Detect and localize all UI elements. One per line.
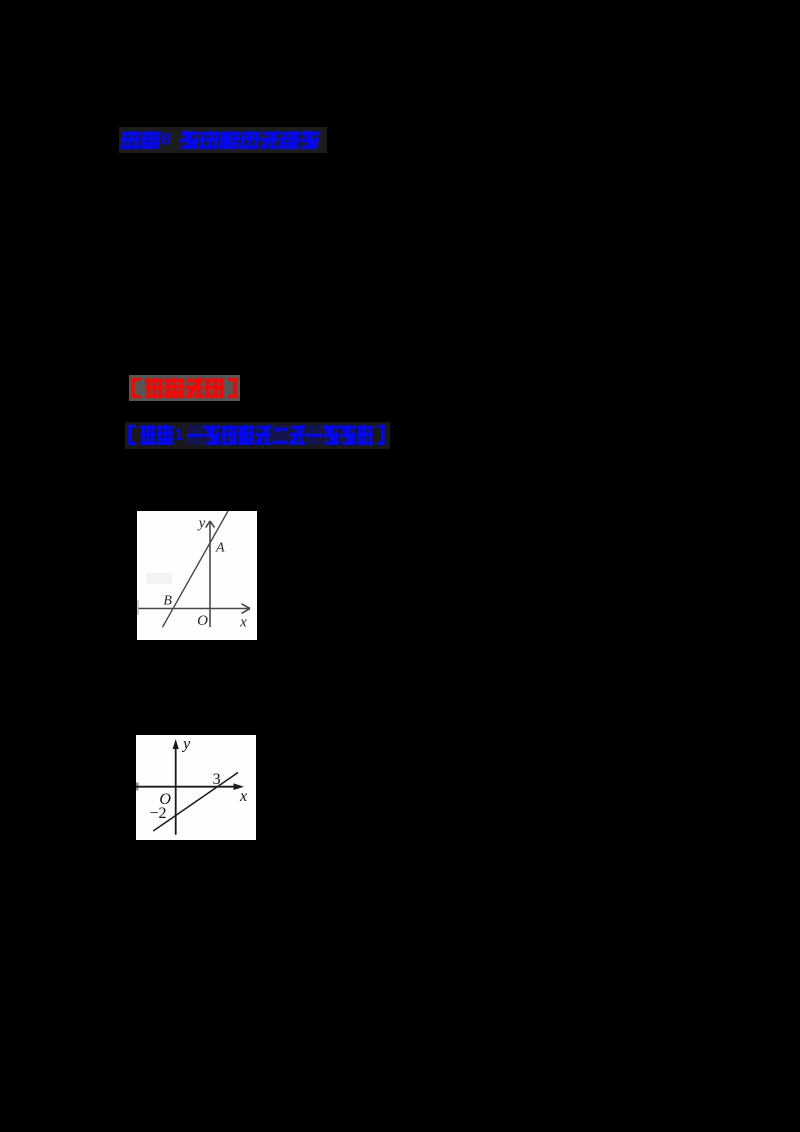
svg-text:x: x	[239, 788, 247, 805]
graph 1: white figure, line through A (y-axis) and B (x-axis)	[137, 511, 257, 640]
line AB	[163, 511, 229, 627]
diagonal line	[153, 773, 238, 832]
x-axis	[136, 786, 240, 788]
svg-text:A: A	[215, 541, 225, 556]
svg-text:y: y	[197, 516, 206, 532]
y-axis arrow	[206, 521, 215, 528]
svg-text:x: x	[239, 615, 247, 631]
svg-text:y: y	[181, 736, 191, 753]
red header 【典例分析】	[125, 378, 245, 398]
title band background	[119, 127, 327, 153]
left edge artifact	[136, 783, 139, 791]
red header band	[129, 375, 240, 401]
blue title: 考点8 方程思想与定义	[120, 131, 322, 149]
svg-text:3: 3	[213, 771, 221, 788]
y-axis	[175, 743, 177, 835]
x-axis	[139, 608, 250, 610]
svg-text:−2: −2	[149, 805, 166, 822]
header2 band	[125, 422, 390, 449]
y-axis	[209, 521, 211, 627]
svg-text:O: O	[197, 613, 208, 629]
graph 2: white figure, line through 3 (x-axis) and -2 (y-axis)	[136, 735, 256, 840]
left edge artifact	[137, 600, 139, 615]
svg-text:B: B	[163, 594, 172, 609]
blue header2 【考点1 一次函数与二元一次方程】	[123, 425, 391, 445]
watermark smudge	[146, 573, 172, 584]
x-axis arrow	[242, 604, 251, 614]
